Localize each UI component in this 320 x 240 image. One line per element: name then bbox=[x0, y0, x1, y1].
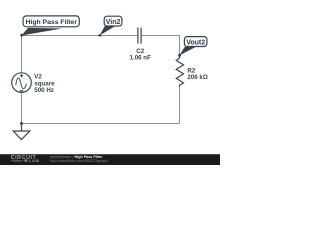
wire: top rail from top-left corner to C2 left plate bbox=[22, 35, 138, 37]
voltage source V2 value label bbox=[34, 73, 55, 94]
wire: top-left corner down to V2 top terminal bbox=[21, 35, 23, 73]
svg-text:Vout2: Vout2 bbox=[186, 40, 205, 47]
CircuitLab logo bbox=[11, 155, 40, 163]
svg-text:1.06 nF: 1.06 nF bbox=[130, 54, 152, 61]
net flag Vout2 bbox=[178, 37, 207, 57]
wire: V2 bottom terminal down to ground junction bbox=[21, 93, 23, 124]
resistor R2 bbox=[176, 56, 183, 87]
footer text: author / title bbox=[49, 155, 108, 163]
svg-text:500 Hz: 500 Hz bbox=[34, 87, 54, 94]
resistor R2 value label bbox=[187, 67, 207, 81]
wire: bottom rail from resistor corner to ground junction bbox=[22, 123, 180, 125]
svg-text:http://circuitlab.com/c/5622/7: http://circuitlab.com/c/5622/7qnkyll/ bbox=[50, 159, 108, 163]
svg-text:LAB: LAB bbox=[29, 158, 40, 163]
net flag Vin2 bbox=[99, 16, 122, 36]
capacitor C2 bbox=[138, 28, 141, 44]
capacitor C2 value label bbox=[130, 48, 152, 62]
voltage source V2 bbox=[12, 73, 32, 93]
svg-text:High Pass Filter: High Pass Filter bbox=[26, 19, 78, 26]
svg-text:V2: V2 bbox=[34, 73, 42, 80]
label flag: High Pass Filter bbox=[20, 16, 79, 37]
wire: resistor bottom lead down to bottom-right corner bbox=[179, 86, 181, 124]
junction: ground node bbox=[20, 122, 23, 125]
svg-text:Vin2: Vin2 bbox=[106, 19, 121, 26]
svg-text:206 kΩ: 206 kΩ bbox=[187, 74, 207, 81]
wire: C2 right plate to top-right corner down to node Vout2 bbox=[142, 36, 180, 55]
footer bar bbox=[0, 155, 220, 166]
ground bbox=[13, 124, 30, 140]
